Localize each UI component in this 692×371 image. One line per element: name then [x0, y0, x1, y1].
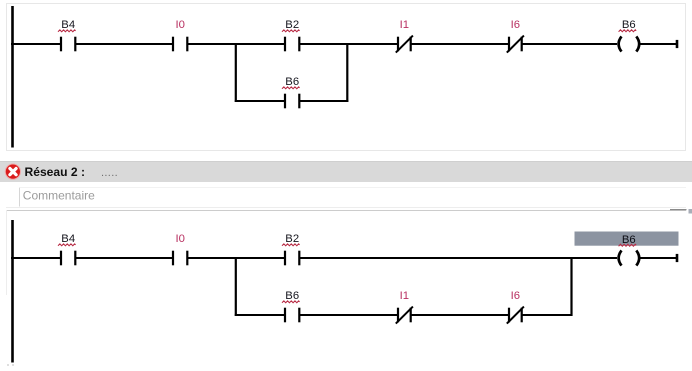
network 1 left power rail: [11, 6, 14, 148]
network 2 canvas top border: [6, 210, 686, 212]
svg-text:I1: I1: [400, 19, 409, 31]
wire: net2 B2 to coil: [299, 257, 617, 259]
squiggle under B2 (network 1): [282, 30, 300, 32]
svg-text:Réseau 2 :: Réseau 2 :: [25, 165, 86, 179]
wire: net2 branch up right riser: [570, 257, 572, 316]
wire: net2 branch I1 to I6: [411, 314, 509, 316]
contact I1 NC (network 1): [396, 36, 413, 53]
network 2 canvas left border: [6, 210, 8, 295]
squiggle under branch B6 (network 2): [282, 301, 300, 303]
contact B4 (network 1): [61, 37, 75, 52]
squiggle under B4 (network 1): [58, 30, 76, 32]
contact I6 NC (network 2 branch): [507, 307, 524, 324]
wire: net1 branch down left: [235, 43, 237, 102]
comment box: [6, 188, 686, 208]
wire: net1 I1 to I6: [411, 43, 509, 45]
faint dotted mark below rail 2: [7, 364, 17, 366]
network 2 header bar: [0, 161, 692, 182]
wire: net2 branch I6 to right riser: [522, 314, 573, 316]
wire: net1 B4 to I0: [75, 43, 173, 45]
squiggle under B4 (network 2): [58, 244, 76, 246]
wire: net2 I0 to B2: [187, 257, 285, 259]
contact I0 (network 2): [173, 251, 187, 266]
squiggle under coil B6 (network 1): [619, 30, 637, 32]
wire: net1 branch rung right of B6: [299, 100, 348, 102]
coil B6 (network 2): [619, 250, 640, 265]
coil B6 (network 1): [619, 36, 640, 51]
wire: net1 I0 to B2: [187, 43, 285, 45]
contact B6 (network 2 branch): [285, 308, 299, 323]
wire: net2 main rung rail to B4: [11, 257, 61, 259]
contact I1 NC (network 2 branch): [396, 307, 413, 324]
svg-text:I0: I0: [175, 19, 184, 31]
wire: net1 branch up right: [346, 43, 348, 102]
wire: net2 branch down left: [235, 257, 237, 316]
selection highlight box on coil operand: [575, 232, 679, 246]
squiggle under coil B6 (network 2): [619, 244, 637, 246]
wire: net1 B2 to I1: [299, 43, 398, 45]
contact I0 (network 1): [173, 37, 187, 52]
svg-text:B6: B6: [285, 76, 299, 88]
net2 rung end tick: [676, 254, 679, 262]
wire: net2 coil to end: [640, 257, 677, 259]
svg-text:B2: B2: [285, 233, 299, 245]
squiggle under B2 (network 2): [282, 244, 300, 246]
svg-text:B4: B4: [61, 233, 75, 245]
network 1 canvas border: [7, 4, 686, 151]
svg-text:B6: B6: [285, 290, 299, 302]
contact B6 (network 1 branch): [285, 94, 299, 109]
svg-text:B6: B6: [622, 19, 636, 31]
error icon (red circle with white X): [5, 164, 20, 179]
svg-text:.....: .....: [101, 167, 118, 179]
network 2 left power rail: [11, 220, 14, 363]
svg-text:I6: I6: [511, 19, 520, 31]
scrollbar chip top-right: [689, 209, 692, 214]
wire: net1 coil to end: [640, 43, 677, 45]
wire: net2 branch B6 to I1: [299, 314, 398, 316]
wire: net1 main rung rail to B4: [11, 43, 61, 45]
contact B4 (network 2): [61, 251, 75, 266]
contact B2 (network 2): [285, 251, 299, 266]
wire: net2 branch rung left of B6: [235, 314, 285, 316]
net1 rung end tick: [676, 40, 679, 48]
svg-text:B2: B2: [285, 19, 299, 31]
squiggle under branch B6 (network 1): [282, 87, 300, 89]
svg-text:Commentaire: Commentaire: [23, 189, 95, 203]
contact B2 (network 1): [285, 37, 299, 52]
svg-text:I1: I1: [400, 290, 409, 302]
svg-text:I6: I6: [511, 290, 520, 302]
wire: net2 B4 to I0: [75, 257, 173, 259]
svg-text:B4: B4: [61, 19, 75, 31]
svg-text:I0: I0: [175, 233, 184, 245]
wire: net1 branch rung left of B6: [235, 100, 285, 102]
wire: net1 I6 to coil: [522, 43, 617, 45]
contact I6 NC (network 1): [507, 36, 524, 53]
